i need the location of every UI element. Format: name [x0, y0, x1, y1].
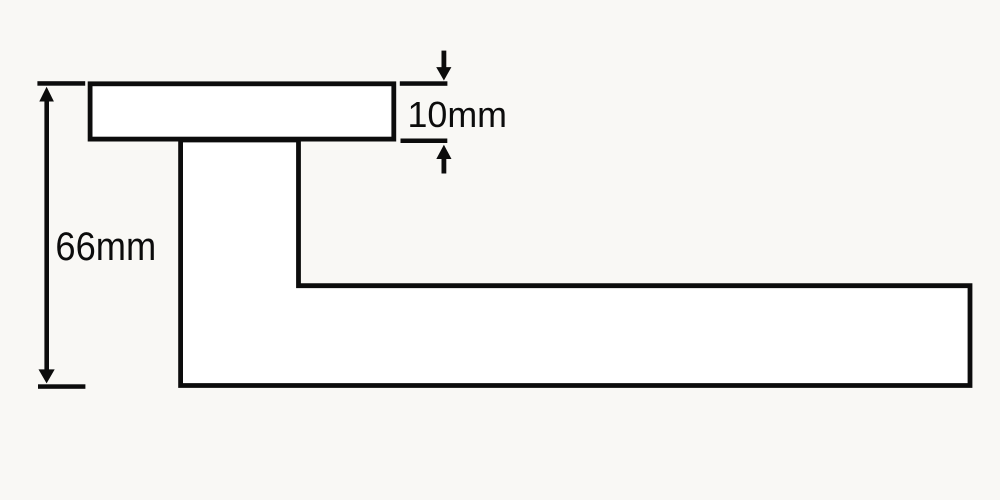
svg-text:10mm: 10mm [408, 94, 508, 135]
svg-text:66mm: 66mm [55, 225, 156, 269]
